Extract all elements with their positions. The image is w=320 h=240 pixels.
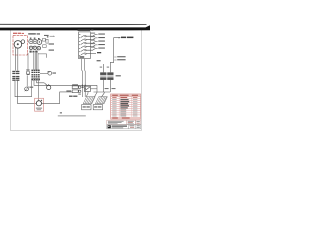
table cell text rows (112, 97, 137, 116)
terminal lugs (30, 51, 38, 53)
wire C1 bottom to speaker (86, 91, 88, 96)
wire tag labels (114, 56, 125, 60)
wire colour labels row 3 (91, 40, 95, 41)
main bus wire (46, 84, 97, 86)
page border frame (decorative) (10, 30, 141, 131)
connector J1 header label (78, 29, 91, 31)
title block right cells (128, 125, 130, 129)
fuse block F1 (pad grid) (12, 71, 19, 81)
connector C1 (arrow box) (84, 86, 90, 91)
title block lower band (107, 125, 141, 129)
switch S4 row 3 (81, 41, 98, 44)
wire F2 down to M2 (31, 81, 33, 97)
manufacturer logo (108, 125, 111, 128)
wire M1 to fuse block F1 (15, 48, 17, 71)
switch assembly S1 (circle cluster) (29, 39, 42, 50)
wire to thermal switch (27, 53, 29, 70)
relay K1 row 1 (72, 86, 83, 89)
wires T1 T2 down to node row (94, 80, 111, 97)
wire F2 to F3 (40, 72, 48, 74)
J1 left terminals (79, 34, 81, 55)
wire C1 to node (91, 88, 98, 90)
control assembly label (28, 33, 40, 34)
gauge G1 (46, 84, 51, 90)
speaker SPK1 (83, 97, 95, 104)
relay K1 row 2 (72, 90, 81, 93)
speaker SPK1 label box (82, 105, 91, 110)
J1 switch rows with exit wires and wire labels (81, 34, 98, 55)
speaker SPK2 label box (93, 105, 102, 110)
table row lines (111, 97, 141, 117)
wires J1 bottom to speakers (82, 59, 86, 97)
sender B1 (25, 75, 29, 91)
ballast resistor T2 (107, 72, 113, 80)
switch S2 row 1 (81, 34, 98, 37)
wire colour labels row 4 (91, 43, 95, 44)
switch assembly S1 terminal marks (30, 38, 40, 40)
feed wire with arrow label TO ANTENNA (110, 38, 118, 73)
switch S6 row 5 (81, 48, 98, 51)
wire colour labels row 2 (91, 36, 95, 37)
wire colour code table (111, 94, 141, 119)
blower motor M1 (14, 40, 25, 48)
M2 value labels (36, 108, 42, 109)
title block box 3 (136, 120, 141, 124)
ignition switch red box R2 (35, 98, 44, 111)
manufacturer name (112, 126, 127, 127)
wire branch to the right (38, 54, 47, 58)
ballast resistor T1 (100, 72, 106, 80)
fuse block F2 (pad grid) (31, 70, 40, 81)
label with arrow (44, 35, 49, 36)
wire colour labels row 5 (91, 47, 95, 48)
J1 bottom label (79, 56, 84, 57)
wire bundle S1 to fuse block F2 (34, 53, 38, 71)
thermal switch TS1 (26, 69, 30, 74)
connector J1 block (79, 32, 91, 59)
label AFM GAUGE (69, 96, 73, 97)
switch S7 row 6 (81, 53, 96, 55)
wire into ballast T1 (102, 64, 104, 72)
figure caption (60, 112, 62, 113)
value labels (49, 43, 54, 44)
resistor block R3 (43, 38, 49, 47)
wire colour labels row 1 (91, 33, 95, 34)
wire M2 out right to relay row (42, 92, 73, 104)
junction dots on bus (82, 85, 83, 86)
title block box 1 (107, 120, 127, 124)
switch S5 row 4 (81, 45, 98, 48)
motor M2 (36, 100, 42, 106)
heater label (red text) (13, 33, 24, 34)
in-line fuse F3 (48, 71, 57, 75)
node N1 drop wire (94, 85, 97, 97)
wire colour labels row 6 (97, 52, 101, 53)
title block box 2 (127, 120, 136, 124)
switch S3 row 2 (81, 38, 98, 41)
wire F2 bottom to bus (37, 81, 47, 85)
speaker SPK2 (95, 97, 107, 104)
wire F1 down-left L to motor M2 (15, 81, 32, 97)
heater enclosure (red dashed box) (13, 35, 27, 55)
